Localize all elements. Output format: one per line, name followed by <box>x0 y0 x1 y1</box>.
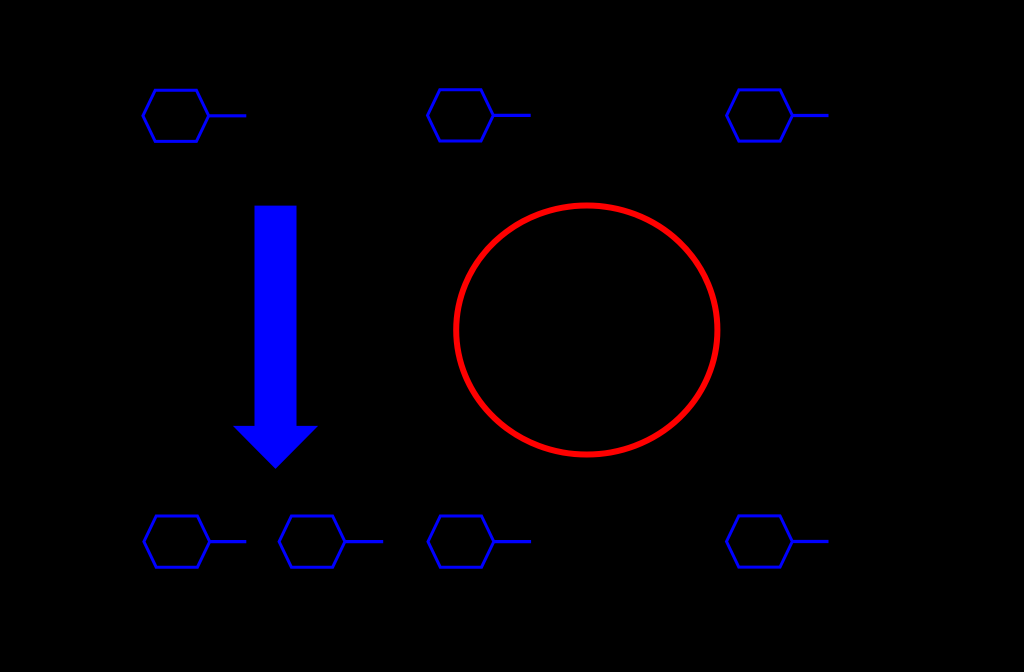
hexagon ring bottom-4 <box>727 516 793 567</box>
red circle annotation <box>456 206 717 455</box>
bond of ring top-3 <box>792 114 828 117</box>
hexagon ring bottom-2 <box>279 516 345 567</box>
bond of ring bottom-2 <box>345 540 383 543</box>
hexagon ring bottom-1 <box>144 516 210 567</box>
bond of ring bottom-4 <box>792 540 828 543</box>
bond of ring bottom-3 <box>494 540 531 543</box>
bond of ring top-2 <box>493 114 530 117</box>
hexagon ring top-3 <box>727 90 793 141</box>
bond of ring bottom-1 <box>210 540 247 543</box>
hexagon ring bottom-3 <box>428 516 494 567</box>
blue down arrow <box>233 206 318 469</box>
bond of ring top-1 <box>209 114 247 117</box>
hexagon ring top-2 <box>428 90 494 141</box>
hexagon ring top-1 <box>143 90 209 141</box>
